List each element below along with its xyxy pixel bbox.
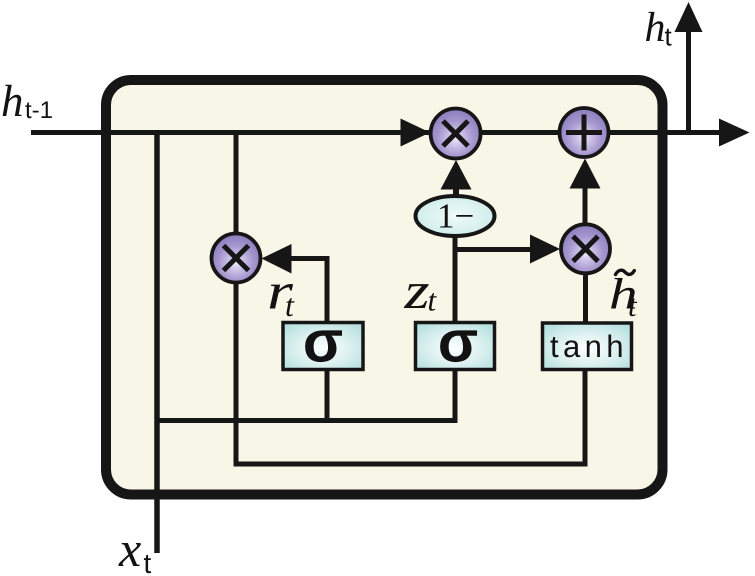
arrowhead into M3 — [530, 235, 560, 264]
arrowhead into A1 from below — [570, 159, 601, 189]
T1 tanh label — [550, 335, 621, 358]
wire h_t vertical output — [686, 30, 691, 135]
update multiplier M2 circle — [431, 109, 481, 159]
wire x_t vertical input — [154, 131, 160, 553]
label h-tilde tilde mark — [616, 270, 635, 274]
label h_t subscript t — [665, 29, 672, 46]
arrowhead into M1 — [262, 244, 292, 274]
arrowhead output right — [719, 119, 750, 147]
wire M3 bottom to tanh T1 — [583, 271, 588, 323]
candidate tanh T1 box — [543, 323, 632, 370]
label x_t — [118, 543, 140, 566]
wire M1 output down and right (line2) to tanh — [236, 276, 585, 464]
wire drop to reset multiplier M1 — [234, 131, 239, 240]
candidate multiplier M3 circle — [561, 224, 610, 273]
A1 plus symbol — [566, 115, 602, 151]
wire r_t from sigma S1 up and left into M1 — [289, 259, 327, 323]
S1 sigma glyph — [305, 330, 342, 362]
label h-tilde h glyph — [611, 278, 635, 309]
label h_{t-1} subscript t-1 — [25, 101, 51, 118]
adder A1 circle — [560, 108, 609, 157]
label r_t subscript t — [286, 298, 294, 316]
label z_t — [404, 284, 429, 308]
reset multiplier M1 circle — [212, 234, 261, 283]
label z_t subscript t — [429, 293, 437, 311]
wire line1 x_t distribution to sigma S2 — [157, 369, 455, 421]
cell boundary box — [106, 80, 663, 495]
M2 times symbol — [443, 121, 468, 146]
label h_{t-1} — [3, 85, 22, 116]
reset gate sigma S1 box — [283, 323, 363, 370]
label h_t top — [646, 12, 664, 41]
wire S1 bottom to line1 — [325, 370, 330, 424]
label h-tilde subscript t — [629, 299, 637, 317]
M1 times symbol — [224, 246, 249, 271]
wire z_t branch to candidate multiplier M3 — [455, 247, 531, 252]
update gate sigma S2 box — [416, 323, 495, 370]
wire S2 top to complement node — [453, 234, 458, 323]
arrowhead on main line into M2 — [401, 119, 431, 147]
wire h_{t-1} main horizontal line — [31, 130, 722, 135]
S2 sigma glyph — [440, 330, 477, 362]
wire complement node to update multiplier M2 — [453, 186, 459, 198]
complement node (1-) ellipse — [416, 196, 495, 236]
M3 times symbol — [573, 236, 598, 261]
label r_t — [270, 284, 293, 309]
label x_t subscript t — [144, 555, 151, 573]
label 1- — [440, 204, 472, 227]
wire M3 to adder A1 — [583, 188, 588, 226]
arrowhead h_t up — [675, 2, 703, 32]
arrowhead into M2 from below — [441, 160, 472, 190]
